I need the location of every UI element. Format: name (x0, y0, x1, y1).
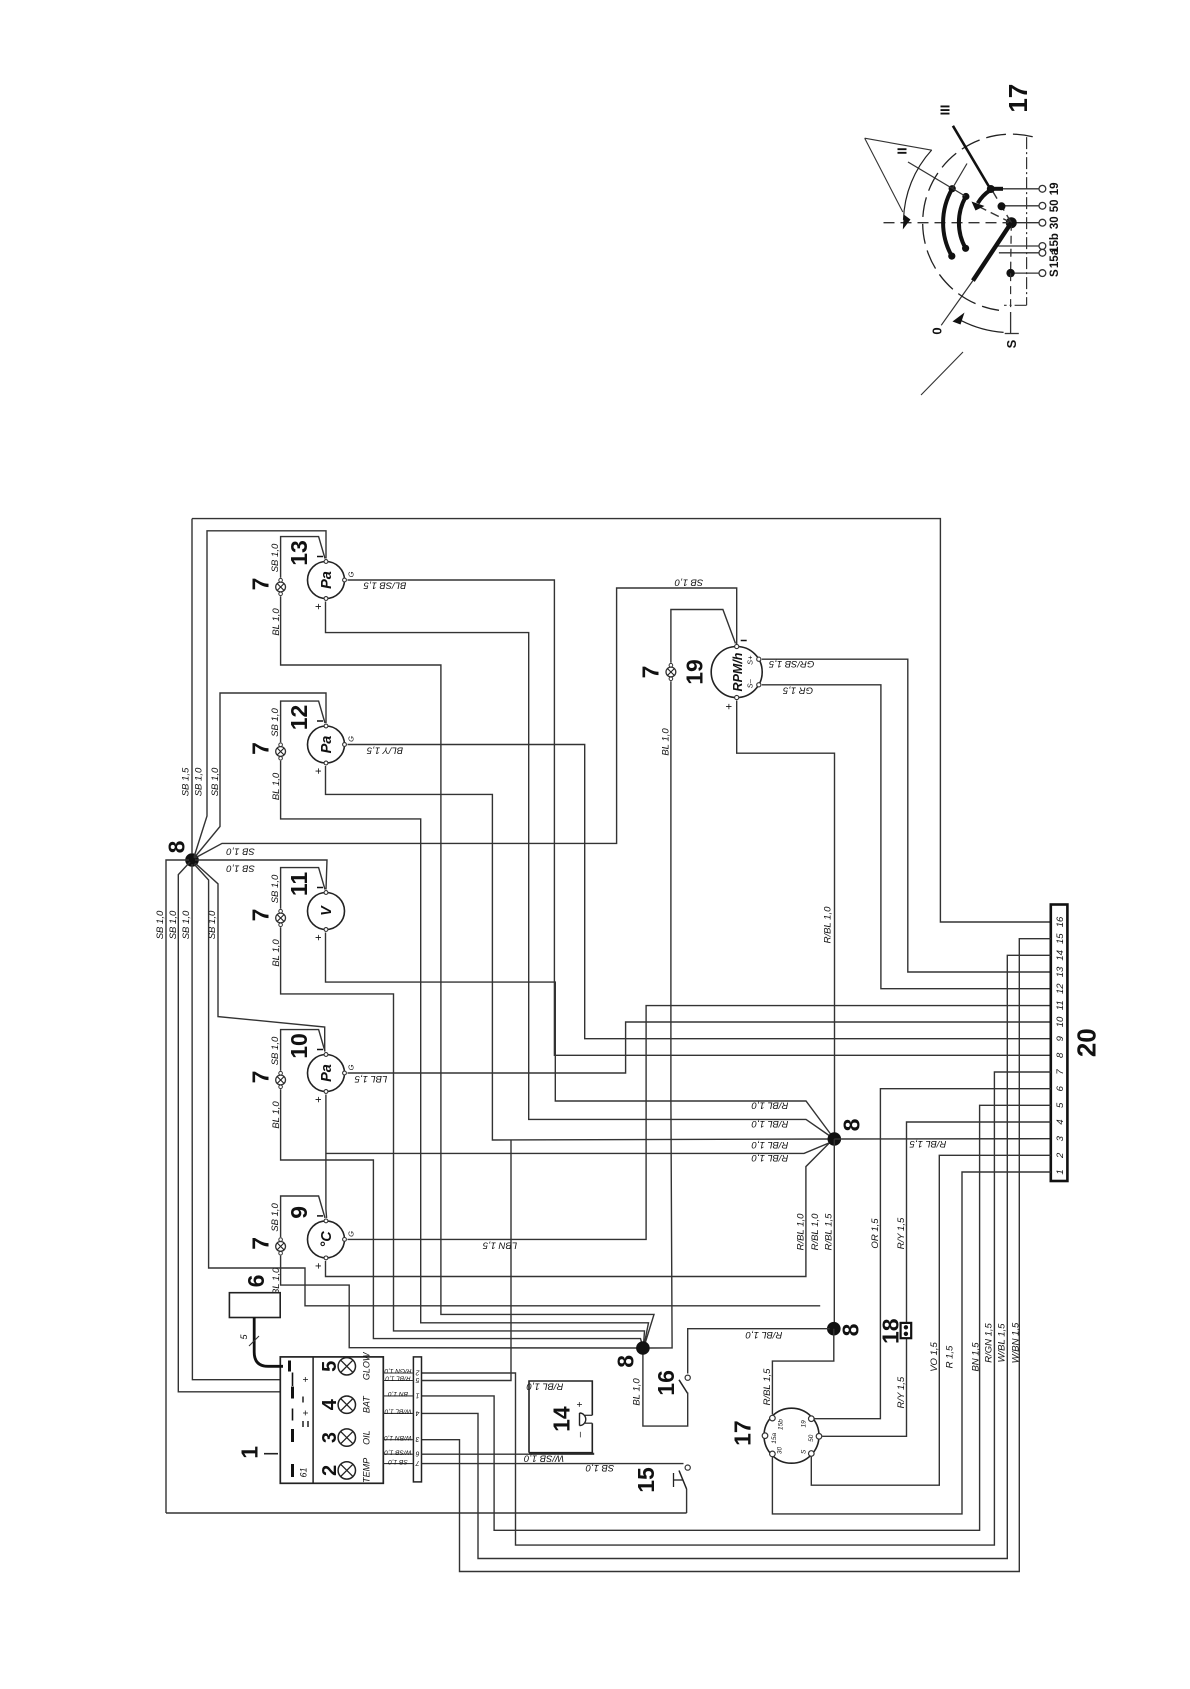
svg-text:4: 4 (416, 1409, 420, 1416)
svg-text:5: 5 (319, 1361, 341, 1372)
svg-text:15: 15 (1055, 933, 1066, 944)
panel lamp 5 GLOW (338, 1358, 355, 1375)
wire SB to RPM gauge minus (195, 588, 737, 858)
moving contact dash on terminal 19 stub (994, 187, 1003, 191)
svg-text:R 1,5: R 1,5 (944, 1345, 955, 1368)
svg-text:+: + (301, 1410, 312, 1416)
wire LBN 1,5 gauge9 G to pin11 (348, 1006, 1051, 1240)
position III radial line (953, 126, 990, 188)
gauge 9 (°C) (308, 1221, 345, 1258)
thick contact arc outer (943, 189, 952, 256)
svg-text:Pa: Pa (319, 1064, 335, 1082)
wire OR 1,5 pin6 to key switch terminal 19 (815, 1089, 1051, 1419)
svg-text:VO 1,5: VO 1,5 (929, 1342, 940, 1372)
key lever position 0 (973, 223, 1011, 281)
svg-text:SB 1,0: SB 1,0 (226, 863, 255, 874)
svg-text:15: 15 (633, 1467, 659, 1493)
svg-text:LBL 1,5: LBL 1,5 (354, 1073, 387, 1084)
svg-text:SB 1,0: SB 1,0 (270, 708, 281, 737)
svg-text:LBN 1,5: LBN 1,5 (482, 1240, 517, 1251)
wire gauge9 lamp BL to junction 8 BL bus (281, 1256, 639, 1348)
svg-text:15a: 15a (1049, 248, 1061, 268)
stub line from outer arc toward III (952, 164, 967, 189)
svg-text:W/SB 1,0: W/SB 1,0 (384, 1448, 412, 1455)
svg-text:°C: °C (319, 1231, 335, 1248)
svg-text:R/BL 1,0: R/BL 1,0 (810, 1213, 821, 1251)
svg-text:R/GN 1,5: R/GN 1,5 (984, 1322, 995, 1362)
svg-text:+: + (313, 1263, 325, 1269)
terminal stubs of key detail (994, 188, 1039, 190)
svg-text:S–: S– (746, 678, 755, 688)
svg-text:5: 5 (416, 1376, 420, 1383)
svg-text:7: 7 (637, 666, 663, 679)
short contact arc near terminal 19 (978, 190, 991, 203)
svg-text:+: + (575, 1401, 586, 1407)
svg-text:16: 16 (653, 1370, 679, 1396)
wire SB verticals below junction (166, 860, 189, 1513)
junction node 8 (BL lamp bus) (636, 1341, 650, 1355)
svg-text:11: 11 (1055, 1000, 1066, 1010)
wire gauge11 plus to junction 8 R/BL (326, 933, 832, 1136)
switch 15 test button (685, 1465, 690, 1470)
svg-text:10: 10 (286, 1033, 312, 1059)
svg-text:R/BL 1,5: R/BL 1,5 (762, 1368, 773, 1406)
svg-text:SB 1,0: SB 1,0 (193, 767, 204, 796)
svg-text:4: 4 (319, 1398, 341, 1410)
wire SB 1,0 panel terminal 7 to switch 15 (422, 1463, 684, 1465)
wire SB bus up to top frame (191, 519, 193, 854)
dash-dot frame line (1026, 137, 1028, 305)
wire BL/SB 1,5 gauge13 G to pin8 (348, 580, 1051, 1055)
svg-text:12: 12 (1055, 983, 1066, 994)
svg-text:W/BL 1,0: W/BL 1,0 (384, 1408, 411, 1415)
svg-text:SB 1,0: SB 1,0 (388, 1458, 408, 1465)
svg-text:19: 19 (682, 659, 708, 685)
svg-text:20: 20 (1072, 1028, 1102, 1057)
svg-text:II: II (894, 147, 909, 154)
wire SB to gauge10 minus (195, 863, 325, 1052)
svg-text:R/BL 1,0: R/BL 1,0 (385, 1375, 411, 1382)
connector terminal block 20 (1051, 905, 1068, 1182)
svg-text:W/SB 1,0: W/SB 1,0 (523, 1452, 564, 1463)
svg-text:3: 3 (1055, 1135, 1066, 1141)
5-core cable from 6 to panel (254, 1318, 283, 1367)
svg-text:7: 7 (247, 1071, 273, 1084)
svg-text:R/BL 1,0: R/BL 1,0 (745, 1329, 783, 1340)
svg-text:R/BL 1,0: R/BL 1,0 (751, 1152, 789, 1163)
svg-text:12: 12 (286, 705, 312, 731)
svg-text:Pa: Pa (319, 571, 335, 589)
indicator lamp 7 for gauge 13 (279, 578, 283, 582)
pivot of key switch detail (1006, 217, 1017, 228)
svg-text:7: 7 (247, 578, 273, 591)
svg-text:16: 16 (1055, 916, 1066, 927)
svg-text:13: 13 (1055, 966, 1066, 977)
svg-text:R/Y 1,5: R/Y 1,5 (896, 1376, 907, 1408)
svg-text:OIL: OIL (362, 1430, 372, 1445)
svg-text:Pa: Pa (319, 736, 335, 754)
wire switch 15 bottom bus to left frame (166, 1512, 687, 1514)
svg-text:8: 8 (163, 840, 189, 853)
wire VO 1,5 pin2 to key switch terminal S (811, 1155, 1051, 1485)
svg-text:R/BL 1,0: R/BL 1,0 (751, 1118, 789, 1129)
wire W/BN 1,5 pin15 to panel terminal 3 (422, 939, 1051, 1572)
svg-text:7: 7 (247, 742, 273, 755)
wire R/BL 1,0 panel terminal 5 to junction R/BL (422, 1140, 512, 1381)
pointer triangle lines (865, 138, 932, 150)
svg-text:SB 1,0: SB 1,0 (270, 543, 281, 572)
svg-text:14: 14 (1055, 950, 1066, 961)
gauge 12 (Pa) (308, 726, 345, 763)
svg-text:SB 1,5: SB 1,5 (180, 767, 191, 796)
panel terminal strip (413, 1357, 421, 1482)
wire gauge13 lamp BL to junction 8 BL bus (281, 596, 654, 1345)
svg-text:+: + (313, 768, 325, 774)
svg-text:10: 10 (1055, 1016, 1066, 1027)
svg-text:50: 50 (808, 1434, 815, 1442)
svg-text:1: 1 (416, 1391, 420, 1398)
svg-text:R/BL 1,0: R/BL 1,0 (795, 1213, 806, 1251)
svg-text:RPM/h: RPM/h (731, 652, 745, 691)
wire SB to gauge12 minus (194, 693, 326, 858)
svg-text:17: 17 (729, 1420, 755, 1446)
svg-text:SB 1,0: SB 1,0 (270, 874, 281, 903)
svg-text:BL/Y 1,5: BL/Y 1,5 (366, 745, 403, 756)
wire lamp7-to-minus gauge 13 (281, 537, 325, 578)
svg-text:SB 1,0: SB 1,0 (674, 577, 703, 588)
wire tach lamp BL down to junction 8 BL bus (647, 681, 672, 1348)
svg-text:+: + (724, 703, 736, 709)
fuse 18 with wire R/Y 1,5 pin4 to key switch terminal 50 (907, 1122, 1051, 1323)
svg-text:BAT: BAT (362, 1395, 372, 1413)
wire gauge10 lamp BL to junction 8 BL bus (281, 1089, 643, 1347)
svg-text:SB 1,0: SB 1,0 (181, 910, 192, 939)
svg-text:SB 1,0: SB 1,0 (226, 846, 255, 857)
svg-text:7: 7 (1055, 1069, 1066, 1075)
wire gauge12 lamp BL to junction 8 BL bus (281, 761, 649, 1346)
svg-text:7: 7 (247, 1237, 273, 1250)
svg-text:BL/SB 1,5: BL/SB 1,5 (363, 580, 406, 591)
wire GR 1,5 tach S- to pin12 (762, 685, 1051, 989)
wire top frame SB 1,0 to connector pin16 (192, 519, 1051, 922)
wire SB to gauge13 minus (194, 531, 326, 857)
dashed radial to terminal 19 contact (992, 189, 1012, 222)
indicator lamp 7 for tachometer (669, 663, 673, 667)
dashed center line (884, 222, 1012, 224)
svg-text:G: G (347, 736, 356, 742)
svg-text:BL 1,0: BL 1,0 (660, 728, 671, 756)
indicator lamp 7 for gauge 10 (279, 1071, 283, 1075)
junction node 8 (R/BL plus bus) (828, 1132, 842, 1146)
wire gauge10 plus / gauge9 minus vertical (325, 1095, 328, 1218)
svg-text:R/BL 1,0: R/BL 1,0 (526, 1381, 564, 1392)
gauge 13 (Pa) (308, 562, 345, 599)
instrument panel 1 (280, 1357, 383, 1483)
svg-text:OR 1,5: OR 1,5 (870, 1218, 881, 1249)
svg-text:R/BL 1,0: R/BL 1,0 (751, 1139, 789, 1150)
svg-text:6: 6 (243, 1275, 269, 1288)
wire junction down to junction 8 lower (833, 1139, 835, 1329)
travel arc II-III with arrow (904, 150, 932, 220)
svg-text:S: S (1004, 339, 1019, 348)
svg-text:S+: S+ (746, 655, 755, 665)
svg-text:5: 5 (1055, 1102, 1066, 1108)
indicator lamp 7 for gauge 9 (279, 1238, 283, 1242)
svg-text:6: 6 (416, 1450, 420, 1457)
tachometer gauge 19 (RPM/h) (711, 647, 762, 698)
svg-text:50: 50 (1049, 199, 1061, 212)
svg-text:R/BL 1,5: R/BL 1,5 (823, 1213, 834, 1251)
svg-text:2: 2 (1055, 1152, 1066, 1159)
svg-text:TEMP: TEMP (362, 1458, 372, 1483)
thick contact arc inner (959, 197, 966, 249)
wire R 1,5 pin1 to key switch terminal 30 (772, 1172, 1050, 1514)
wire W/SB 1,0 panel terminal 6 to buzzer (422, 1453, 594, 1455)
svg-text:14: 14 (549, 1406, 575, 1432)
dashed outer travel arc (923, 134, 1033, 310)
wire W/BL 1,5 pin14 to panel terminal 4 (422, 955, 1051, 1558)
svg-text:3: 3 (319, 1432, 341, 1443)
svg-text:GR/SB 1,5: GR/SB 1,5 (768, 658, 814, 669)
svg-text:15b: 15b (777, 1419, 784, 1430)
wire gauge12 plus to junction 8 R/BL (326, 766, 831, 1140)
key switch 17 (764, 1408, 819, 1463)
svg-text:3: 3 (416, 1435, 420, 1442)
svg-text:SB 1,0: SB 1,0 (270, 1036, 281, 1065)
svg-text:SB 1,0: SB 1,0 (210, 767, 221, 796)
svg-text:+: + (313, 934, 325, 940)
svg-text:SB 1,0: SB 1,0 (585, 1462, 614, 1473)
svg-text:17: 17 (1003, 84, 1033, 113)
wire lamp7-to-minus gauge 9 (281, 1196, 325, 1237)
svg-text:G: G (347, 571, 356, 577)
switch 16 panel lighting (685, 1375, 690, 1380)
gauge 10 (Pa) (308, 1055, 345, 1092)
wire GR/SB 1,5 tach S+ to pin13 (762, 659, 1051, 972)
svg-text:1: 1 (237, 1446, 263, 1459)
dashed radial to position II contact with arrow (975, 205, 1012, 223)
gauge 11 (V) (308, 893, 345, 930)
svg-text:4: 4 (1055, 1119, 1066, 1124)
svg-text:W/BL 1,5: W/BL 1,5 (997, 1323, 1008, 1363)
svg-text:6: 6 (1055, 1085, 1066, 1091)
position II radial line (908, 162, 965, 196)
wire lamp7-to-minus gauge 12 (281, 701, 325, 742)
svg-text:R/BL 1,5: R/BL 1,5 (909, 1138, 947, 1149)
wire R/GN 1,5 pin7 to panel terminal 2 (422, 1072, 1051, 1545)
svg-text:18: 18 (877, 1318, 903, 1344)
svg-text:2: 2 (319, 1465, 341, 1476)
svg-text:W/BN 1,5: W/BN 1,5 (1010, 1322, 1021, 1363)
indicator lamp 7 for gauge 11 (279, 909, 283, 913)
svg-text:SB 1,0: SB 1,0 (270, 1202, 281, 1231)
svg-text:9: 9 (1055, 1035, 1066, 1041)
svg-text:III: III (937, 105, 952, 116)
svg-text:7: 7 (247, 909, 273, 922)
svg-text:30: 30 (777, 1447, 784, 1455)
svg-text:BL 1,0: BL 1,0 (631, 1378, 642, 1406)
svg-text:2: 2 (416, 1369, 421, 1376)
wire gauge9 plus to junction 8 R/BL via lower run (326, 1141, 832, 1277)
svg-text:30: 30 (1049, 216, 1061, 229)
alarm buzzer 14 (529, 1381, 592, 1453)
svg-text:8: 8 (838, 1323, 864, 1336)
wire BL/Y 1,5 gauge12 G to pin9 (348, 745, 1051, 1039)
wire gauge11 lamp BL to junction 8 BL bus (281, 927, 645, 1346)
wire LBL 1,5 gauge10 G to pin10 (348, 1022, 1051, 1073)
junction node 8 (SB minus bus) (185, 853, 199, 867)
svg-text:GR 1,5: GR 1,5 (782, 685, 813, 696)
svg-text:–: – (575, 1431, 586, 1437)
wire SB to gauge11 minus (195, 860, 327, 890)
svg-text:13: 13 (286, 540, 312, 566)
svg-text:GLOW: GLOW (362, 1351, 372, 1380)
junction node 8 (R/BL to key switch) (827, 1322, 841, 1336)
svg-text:19: 19 (1049, 182, 1061, 195)
svg-text:R/Y 1,5: R/Y 1,5 (896, 1217, 907, 1249)
svg-text:R/BL 1,0: R/BL 1,0 (751, 1100, 789, 1111)
svg-text:+: + (313, 603, 325, 609)
wire BN 1,5 pin5 to panel terminal 1 (422, 1105, 1051, 1530)
svg-text:SB 1,0: SB 1,0 (168, 910, 179, 939)
svg-text:V: V (319, 905, 335, 916)
svg-text:8: 8 (1055, 1052, 1066, 1058)
svg-text:8: 8 (838, 1118, 864, 1131)
svg-text:S: S (1049, 269, 1061, 277)
svg-text:R/BL 1,0: R/BL 1,0 (822, 906, 833, 944)
svg-text:+: + (313, 1096, 325, 1102)
svg-text:G: G (347, 1064, 356, 1070)
wire lamp7-to-minus gauge 11 (281, 868, 325, 909)
wire junction to key switch 15b (772, 1329, 833, 1415)
wire lamp to tach minus (671, 610, 736, 663)
wire tach plus down to junction 8 R/BL (737, 701, 835, 1135)
svg-text:G: G (347, 1231, 356, 1237)
svg-text:BN 1,0: BN 1,0 (388, 1390, 408, 1397)
sender unit 6 (229, 1293, 280, 1318)
svg-text:SB 1,0: SB 1,0 (155, 910, 166, 939)
svg-text:9: 9 (286, 1206, 312, 1219)
panel internal plus/minus bars (288, 1361, 291, 1372)
wire junction to pin3 R/BL 1,5 (834, 1138, 1051, 1140)
S contact dot and dashed drop (1010, 223, 1013, 273)
svg-text:11: 11 (286, 872, 312, 897)
svg-text:19: 19 (801, 1420, 808, 1428)
wire lamp7-to-minus gauge 10 (281, 1030, 325, 1071)
svg-text:15a: 15a (771, 1432, 778, 1443)
svg-text:R/GN 1,0: R/GN 1,0 (384, 1367, 411, 1374)
svg-text:+: + (301, 1376, 312, 1382)
svg-text:W/BN 1,0: W/BN 1,0 (384, 1434, 412, 1441)
svg-text:61: 61 (299, 1467, 309, 1477)
svg-text:0: 0 (930, 327, 945, 334)
indicator lamp 7 for gauge 12 (279, 743, 283, 747)
wire gauge10 plus to junction 8 R/BL (326, 1142, 831, 1153)
svg-text:S: S (801, 1449, 808, 1454)
svg-text:1: 1 (1055, 1169, 1066, 1174)
leader line below 0 (921, 352, 963, 395)
wire junction to light switch 16 (688, 1329, 830, 1374)
wire staircase junction to R-BL riser (194, 864, 820, 1306)
svg-text:8: 8 (612, 1355, 638, 1368)
wire gauge13 plus to junction 8 R/BL (326, 602, 832, 1138)
travel arc S-0 with arrow (961, 321, 1003, 333)
svg-text:BN 1,5: BN 1,5 (970, 1342, 981, 1372)
